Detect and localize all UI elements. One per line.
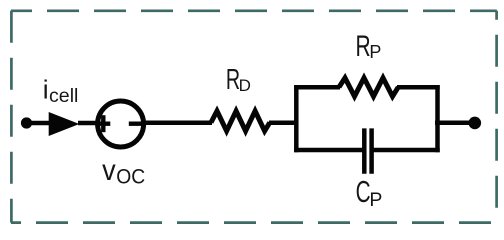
label i_cell	[43, 75, 79, 107]
dashed boundary box bottom edge	[11, 221, 497, 224]
plus sign of source	[96, 115, 110, 132]
svg-text:C: C	[356, 174, 371, 209]
voltage source V1 circle	[98, 101, 144, 147]
svg-text:v: v	[102, 154, 116, 187]
wire (source to R_D)	[144, 120, 213, 125]
current arrow i_cell	[49, 112, 80, 136]
label C_P	[356, 174, 383, 211]
wire (parallel block left vertical)	[294, 85, 299, 152]
wire (arrow to source)	[78, 121, 98, 126]
wire (block to right node)	[435, 120, 474, 125]
dashed boundary box left edge	[10, 11, 13, 223]
label v_OC	[102, 154, 145, 189]
svg-text:D: D	[239, 76, 251, 95]
resistor R_D	[211, 111, 270, 131]
svg-text:P: P	[369, 42, 381, 62]
wire (parallel block right vertical)	[435, 85, 440, 152]
wire (bottom branch left segment)	[294, 148, 364, 153]
dashed boundary box right edge	[495, 11, 498, 223]
svg-text:P: P	[369, 189, 382, 211]
svg-text:cell: cell	[49, 85, 78, 107]
minus sign of source	[129, 121, 143, 125]
node B (right terminal dot)	[469, 117, 482, 130]
wire (top branch right segment)	[397, 85, 440, 90]
wire (bottom branch right segment)	[372, 148, 440, 153]
label R_P	[356, 31, 382, 63]
label R_D	[226, 64, 251, 96]
wire (top branch left segment)	[294, 85, 340, 90]
svg-text:i: i	[43, 75, 49, 105]
wire (R_D to parallel block)	[269, 120, 298, 125]
dashed boundary box top edge	[11, 9, 497, 12]
svg-text:R: R	[356, 31, 371, 63]
capacitor C_P	[364, 128, 371, 173]
wire (left node to arrow)	[27, 121, 53, 126]
resistor R_P	[339, 78, 398, 97]
node A (left terminal dot)	[21, 117, 32, 128]
svg-text:OC: OC	[116, 166, 145, 189]
